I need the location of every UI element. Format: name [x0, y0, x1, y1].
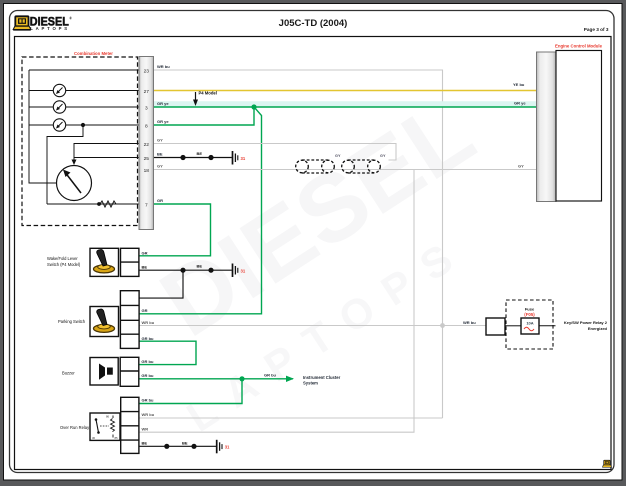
watermark DIESEL	[143, 78, 492, 440]
ground symbol pin25	[233, 151, 238, 165]
svg-text:WR bu: WR bu	[142, 412, 155, 417]
ECM module box	[556, 51, 602, 202]
svg-text:BE: BE	[142, 441, 148, 446]
wire pin8 GR ye green up to junction	[154, 107, 255, 125]
svg-text:7: 7	[145, 202, 148, 208]
svg-text:GR: GR	[157, 198, 163, 203]
svg-text:Switch (P4 Model): Switch (P4 Model)	[47, 262, 81, 267]
svg-text:Parking Switch: Parking Switch	[58, 319, 86, 324]
svg-text:31: 31	[241, 268, 246, 273]
wire green branch down to relay	[139, 379, 242, 404]
svg-text:Engine Control Module: Engine Control Module	[555, 44, 603, 49]
svg-text:GY: GY	[518, 164, 524, 169]
svg-text:GR ye: GR ye	[514, 101, 526, 106]
wire pin22 GY gray	[154, 144, 397, 161]
svg-text:18: 18	[144, 168, 150, 174]
svg-text:J05C-TD (2004): J05C-TD (2004)	[279, 18, 348, 29]
lamp L1	[53, 84, 65, 96]
wire pin7 GR green to neutral switch	[139, 204, 211, 256]
svg-text:WR bu: WR bu	[463, 320, 476, 325]
svg-text:3: 3	[145, 105, 148, 111]
svg-text:GY: GY	[335, 154, 341, 158]
svg-text:GY: GY	[157, 138, 163, 143]
svg-text:Instrument Cluster: Instrument Cluster	[303, 375, 341, 380]
parking switch connector	[120, 291, 139, 349]
wire buzzer GR bu green with arrow	[139, 378, 242, 380]
svg-text:85: 85	[115, 436, 119, 440]
wire green vertical branch to parking switch	[139, 107, 261, 314]
svg-text:10A: 10A	[526, 321, 533, 326]
svg-text:LAPTOPS: LAPTOPS	[30, 26, 69, 31]
wire bottom resistor line	[47, 203, 139, 205]
ground symbol relay	[217, 440, 222, 454]
node gray junction	[440, 323, 445, 328]
wire relay WR bu gray	[139, 417, 442, 419]
svg-text:GR ye: GR ye	[157, 101, 169, 106]
svg-text:BE: BE	[142, 264, 148, 269]
svg-text:GR: GR	[142, 251, 148, 256]
svg-text:WR bu: WR bu	[157, 64, 170, 69]
svg-text:Fuse: Fuse	[525, 307, 535, 312]
svg-text:GR ye: GR ye	[157, 119, 169, 124]
wire WR bu parking to fuse	[139, 325, 486, 327]
wire labels near strip	[157, 64, 170, 203]
svg-text:Over Run Relay: Over Run Relay	[60, 425, 90, 430]
svg-text:25: 25	[144, 156, 150, 162]
node green junction pin3	[251, 104, 256, 109]
svg-text:GY: GY	[380, 154, 386, 158]
svg-text:GY: GY	[157, 164, 163, 169]
svg-text:31: 31	[225, 445, 230, 450]
svg-text:BE: BE	[197, 151, 203, 156]
svg-text:System: System	[303, 381, 318, 386]
svg-text:86: 86	[106, 415, 110, 419]
connector meter-side strip	[139, 57, 154, 230]
wire gray vertical from GY to relay WR	[139, 170, 414, 433]
combination meter dashed box	[22, 57, 138, 226]
svg-text:GR bu: GR bu	[141, 359, 154, 364]
wire lamp line 2 (pin27)	[29, 90, 139, 92]
svg-text:BE: BE	[197, 264, 203, 269]
svg-text:(F05): (F05)	[524, 312, 535, 317]
wire pin3 GR ye green highlighted	[154, 101, 537, 106]
wire neutral BE black with ground	[139, 269, 232, 271]
fuse dashed box	[506, 300, 553, 349]
svg-text:GR bu: GR bu	[142, 398, 155, 403]
wire lamp line 4 (pin8)	[29, 124, 139, 126]
wire lamp line 3 (pin3)	[29, 106, 139, 108]
svg-text:Buzzer: Buzzer	[62, 371, 75, 376]
logo Diesel Laptops	[13, 16, 31, 30]
svg-text:®: ®	[69, 17, 72, 21]
svg-text:31: 31	[241, 156, 246, 161]
svg-text:Page 3 of 3: Page 3 of 3	[584, 27, 609, 32]
wire gauge feed pin22	[74, 144, 139, 163]
wire relay BE black with ground	[139, 445, 216, 447]
svg-text:BE: BE	[157, 152, 163, 157]
gauge speedometer	[57, 166, 92, 201]
svg-text:Wake/Fold Lever: Wake/Fold Lever	[47, 256, 78, 261]
lamp L2	[53, 101, 65, 113]
wire pin25 BE black with ground	[154, 157, 232, 159]
svg-text:WR: WR	[142, 427, 149, 432]
svg-text:WR bu: WR bu	[142, 320, 155, 325]
wire fuse output	[505, 325, 521, 327]
svg-text:27: 27	[144, 89, 150, 95]
parking switch icon	[90, 307, 119, 337]
node junction dots pin25	[180, 155, 185, 160]
inline connector capsule 1	[296, 160, 335, 173]
wire parking GR bu green Z to buzzer	[139, 341, 196, 364]
inline connector capsule 2	[342, 160, 381, 173]
svg-text:Combination Meter: Combination Meter	[74, 51, 113, 56]
node junction on line4	[81, 123, 85, 127]
buzzer icon	[90, 358, 118, 386]
svg-text:GR bu: GR bu	[264, 373, 277, 378]
wire pin18 GY gray to ECM	[154, 169, 537, 171]
svg-text:P4 Model: P4 Model	[199, 91, 217, 96]
svg-text:YE bu: YE bu	[513, 82, 525, 87]
wire gauge feed pin25	[74, 157, 139, 159]
ground symbol neutral	[233, 264, 238, 278]
connector ECM strip	[537, 52, 557, 202]
svg-text:8: 8	[145, 123, 148, 129]
fuse F05	[521, 318, 539, 334]
wire bus left	[29, 70, 57, 183]
svg-text:GR: GR	[142, 308, 148, 313]
svg-text:30: 30	[92, 436, 96, 440]
wire branch to bottom line	[47, 125, 83, 204]
neutral switch connector	[121, 248, 139, 276]
svg-text:GR bu: GR bu	[142, 336, 155, 341]
wire lamp line 1 (pin23)	[29, 69, 139, 71]
neutral switch icon	[90, 248, 119, 276]
fuse input connector box	[486, 318, 505, 335]
resistor	[100, 201, 116, 207]
over run relay box	[90, 413, 120, 440]
svg-text:22: 22	[144, 142, 150, 148]
svg-text:BE: BE	[182, 441, 188, 446]
svg-text:Energized: Energized	[588, 326, 608, 331]
lamp L3	[53, 119, 65, 131]
wire pin27 YE yellow	[154, 90, 537, 92]
svg-text:Key/SW Power Relay 2: Key/SW Power Relay 2	[564, 320, 608, 325]
over run relay connector	[121, 397, 139, 453]
svg-text:GR bu: GR bu	[141, 373, 154, 378]
svg-text:23: 23	[144, 68, 150, 74]
bottom right mini logo	[603, 460, 612, 467]
wire BE branch down to parking	[139, 270, 183, 298]
buzzer connector	[120, 357, 139, 386]
wire pin23 WR bu gray	[154, 70, 443, 418]
